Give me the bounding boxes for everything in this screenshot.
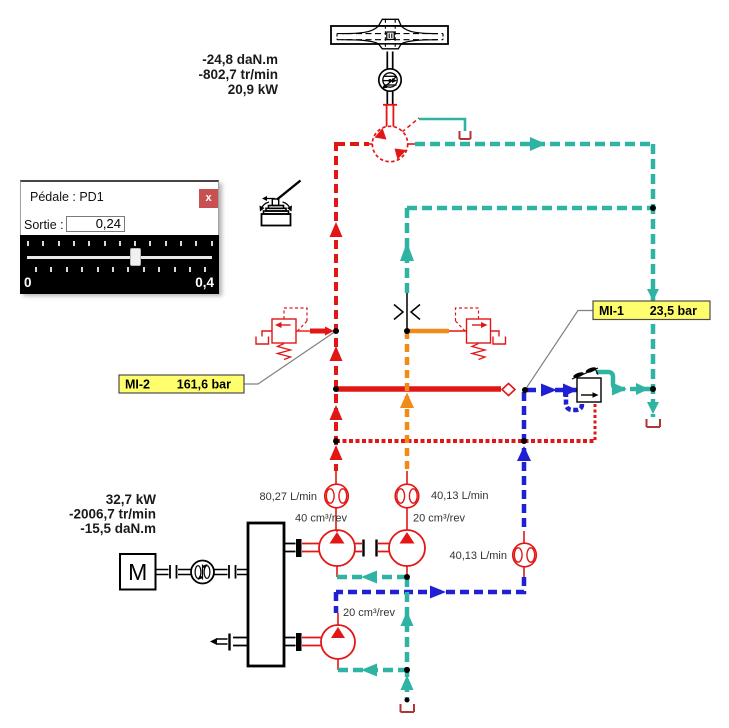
wire: teal dashed flow valve outlet Z to tank line bbox=[596, 372, 618, 389]
flow arrow blue right (1) toward flow valve bbox=[541, 384, 557, 397]
wire: orange dashed vertical x=407 down to meter2 bbox=[405, 331, 410, 484]
wire: teal dashed pump suction row y=577 bbox=[337, 566, 407, 577]
flow arrow teal right (1) after flow valve bbox=[612, 383, 627, 396]
tank: reservoir (bottom) bbox=[401, 704, 415, 712]
text: flow and displacement labels bbox=[260, 490, 507, 619]
relief valve VS1 (left) bbox=[256, 308, 334, 360]
svg-text:-2006,7 tr/min: -2006,7 tr/min bbox=[69, 507, 156, 522]
flow arrow teal down above MI-1 label bbox=[647, 289, 659, 301]
speed sensor bbox=[379, 69, 401, 91]
leader line MI-1 bbox=[525, 311, 594, 391]
wire: motor outlet thin red stub bbox=[407, 143, 415, 145]
wire: blue dashed from node to flow control valve bbox=[527, 388, 577, 393]
leader line MI-2 bbox=[244, 331, 336, 384]
wire: red dotted pressure line y=441 bbox=[336, 439, 596, 443]
wire: red dashed vertical main pressure line x=336 bbox=[334, 142, 338, 484]
svg-text:M: M bbox=[128, 559, 147, 585]
svg-text:MI-2: MI-2 bbox=[125, 378, 150, 392]
wire: teal dashed motor outlet row y=144 bbox=[415, 142, 653, 147]
pump P2 20cm3/rev bbox=[389, 530, 425, 566]
shaft: gearbox unused left stub bbox=[210, 634, 248, 651]
wire: red thin meter3 bottom stub bbox=[523, 566, 525, 577]
svg-text:32,7 kW: 32,7 kW bbox=[106, 492, 157, 507]
relief valve VS2 (right) bbox=[456, 308, 506, 360]
flow arrow teal left on row y=577 bbox=[361, 571, 377, 584]
wire: blue dashed compensator loop under flow valve bbox=[566, 392, 582, 410]
flow meter FM3 bbox=[513, 543, 537, 567]
wire: red dotted drop from flow valve x=595 bbox=[594, 404, 597, 441]
wire: teal dashed vertical x=407 suction to tank bbox=[405, 577, 410, 700]
flow arrow teal left on row y=670 bbox=[361, 664, 377, 677]
wire: teal solid case drain to tank bbox=[419, 119, 465, 131]
tank: motor case drain bbox=[460, 131, 471, 139]
text: motor measurements bbox=[198, 52, 278, 97]
measurement label MI-1 bbox=[593, 301, 710, 320]
svg-text:40 cm³/rev: 40 cm³/rev bbox=[295, 513, 347, 525]
shaft: M to torque meter with coupling bbox=[156, 565, 192, 579]
flow meter FM2 bbox=[395, 484, 419, 508]
flow meter FM1 bbox=[325, 484, 349, 508]
shaft: pump P1 to pump P2 with coupling bbox=[355, 540, 389, 557]
gearbox bbox=[248, 523, 284, 666]
junction node dots bbox=[333, 205, 656, 703]
wire: teal dashed right vertical x=653 to tank bbox=[651, 144, 656, 417]
flow arrow teal right (2) after flow valve bbox=[636, 383, 649, 395]
shaft: torque meter to gearbox with coupling bbox=[214, 565, 248, 579]
flow arrow teal right on motor outlet bbox=[530, 137, 546, 151]
flow arrow red up x=336 (3) bbox=[330, 405, 343, 420]
wire: red dashed motor inlet horizontal bbox=[336, 142, 373, 146]
svg-text:-15,5 daN.m: -15,5 daN.m bbox=[80, 521, 156, 536]
flow arrow red up x=336 (2) bbox=[330, 346, 343, 361]
svg-text:40,13 L/min: 40,13 L/min bbox=[431, 490, 488, 502]
svg-text:-24,8 daN.m: -24,8 daN.m bbox=[202, 52, 278, 67]
wire: blue stub down to pump3 top bbox=[336, 592, 338, 626]
svg-text:20 cm³/rev: 20 cm³/rev bbox=[343, 607, 395, 619]
torque/speed meter on shaft bbox=[191, 561, 214, 584]
motor top port (red) bbox=[383, 105, 397, 127]
pedal / joystick icon PD1 bbox=[260, 181, 301, 226]
shaft: gearbox to pump P3 bbox=[284, 633, 321, 651]
flow arrow blue right (2) toward flow valve bbox=[563, 384, 578, 397]
svg-text:40,13 L/min: 40,13 L/min bbox=[450, 550, 507, 562]
svg-text:80,27 L/min: 80,27 L/min bbox=[260, 491, 317, 503]
flow arrow teal up x=407 (1) bbox=[401, 611, 414, 626]
shaft: speed sensor to motor bbox=[387, 92, 392, 105]
wire: blue dashed meter3 down and row y=592 bbox=[336, 577, 524, 592]
wire: orange solid from orifice node to right relief valve bbox=[407, 329, 467, 334]
svg-text:20,9 kW: 20,9 kW bbox=[228, 82, 279, 97]
electric motor M box bbox=[120, 554, 156, 590]
flow control valve (black) with manual adjust bbox=[572, 366, 601, 402]
shaft: gearbox to pump P1 bbox=[284, 539, 319, 557]
check valve diamond indicator bbox=[502, 384, 515, 396]
wire: teal dashed row y=208 bbox=[407, 206, 653, 211]
dialog: Pédale PD1 bbox=[20, 180, 219, 293]
text: engine measurements bbox=[69, 492, 156, 536]
hydraulic motor M1 bbox=[372, 126, 407, 161]
measurement label MI-2 bbox=[119, 375, 244, 393]
svg-text:23,5 bar: 23,5 bar bbox=[650, 304, 697, 318]
wire: red solid pressure line y=389 bbox=[336, 386, 501, 392]
svg-text:MI-1: MI-1 bbox=[599, 304, 624, 318]
svg-text:161,6 bar: 161,6 bar bbox=[177, 378, 231, 392]
flow arrow orange up below line y=389 bbox=[400, 393, 414, 409]
wire: red case drain diagonal at motor bbox=[402, 118, 419, 132]
load roller / inertia wheel bbox=[331, 19, 448, 49]
flow arrow red up x=336 (4) bbox=[330, 445, 343, 460]
svg-text:-802,7 tr/min: -802,7 tr/min bbox=[198, 67, 278, 82]
tank: main return (right) bbox=[647, 419, 661, 427]
flow arrow teal up above orifice bbox=[400, 242, 414, 261]
flow arrow red up x=336 (1) bbox=[330, 222, 343, 237]
pump P1 40cm3/rev bbox=[319, 530, 355, 566]
flow arrow teal up x=407 (2) bbox=[401, 675, 414, 690]
wire: teal dashed pump3 suction row y=670 bbox=[338, 659, 407, 670]
wire: teal dashed vertical x=407 to orifice bbox=[405, 208, 410, 293]
wire: red thin meter2 to pump2 bbox=[406, 508, 408, 530]
flow arrow teal down before right tank bbox=[647, 402, 659, 414]
wire: red thin meter1 to pump1 bbox=[335, 508, 337, 530]
svg-text:20 cm³/rev: 20 cm³/rev bbox=[413, 513, 465, 525]
orifice restrictor (black) bbox=[394, 293, 420, 331]
pump P3 20cm3/rev bbox=[321, 625, 355, 659]
flow arrow blue up below node x=524 bbox=[517, 446, 531, 461]
wire: blue dashed vertical x=524 node to meter3 bbox=[522, 392, 527, 544]
flow arrow blue right on row y=592 bbox=[430, 586, 446, 599]
shaft: load to speed sensor bbox=[387, 52, 392, 70]
